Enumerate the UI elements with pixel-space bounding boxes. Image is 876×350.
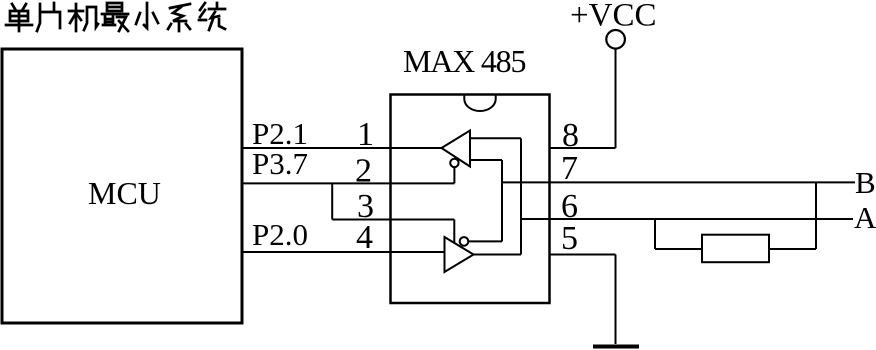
- wire pin2 P3.7 to /RE: [242, 182, 454, 184]
- pin 4 number: [356, 219, 373, 256]
- wire GND drop: [615, 255, 617, 345]
- svg-text:+VCC: +VCC: [570, 0, 656, 34]
- title 单片机最小系统: [6, 3, 225, 31]
- label A: [854, 200, 876, 235]
- wire jog pin2-pin3: [331, 183, 333, 219]
- pin 5 number: [561, 220, 578, 257]
- ground: [593, 345, 639, 349]
- wire pin3 DE: [332, 219, 454, 221]
- svg-text:7: 7: [561, 150, 578, 187]
- pin 3 number: [357, 188, 374, 225]
- wire pin5 GND: [550, 254, 616, 256]
- 小: [136, 3, 158, 28]
- label +VCC: [570, 0, 656, 34]
- 单: [6, 4, 32, 31]
- wire resistor right lead: [769, 248, 816, 250]
- wire DE drop to driver: [453, 220, 455, 243]
- wire net B vertical: [501, 160, 503, 241]
- driver triangle U1B: [445, 237, 474, 272]
- svg-text:2: 2: [355, 153, 372, 190]
- wire receiver enable bubble drop: [453, 167, 455, 183]
- wire driver inverted output: [468, 240, 502, 242]
- wire pin8 VCC: [550, 147, 616, 149]
- svg-text:1: 1: [357, 116, 374, 153]
- wire B stub to resistor: [815, 182, 817, 249]
- chip notch: [464, 95, 495, 111]
- svg-text:8: 8: [562, 117, 579, 154]
- svg-text:MCU: MCU: [88, 175, 161, 211]
- svg-text:MAX 485: MAX 485: [403, 43, 525, 79]
- wire pin1 P2.1 to RO: [242, 147, 442, 149]
- pin 6 number: [561, 188, 578, 225]
- svg-text:A: A: [854, 200, 876, 235]
- receiver op-amp triangle U1A: [442, 131, 471, 167]
- wire receiver input A stub: [470, 137, 521, 139]
- wire pin6 net A: [521, 218, 853, 220]
- wire resistor left lead: [655, 248, 702, 250]
- wire pin7 net B: [502, 181, 855, 183]
- 最: [102, 3, 128, 31]
- MAX 485 label: [403, 43, 525, 79]
- svg-text:4: 4: [356, 219, 373, 256]
- label P2.0: [252, 217, 308, 252]
- svg-text:B: B: [855, 165, 876, 200]
- wire net A vertical: [520, 138, 522, 254]
- MAX 485 chip body U1: [391, 95, 550, 304]
- wire VCC riser: [615, 49, 617, 149]
- 片: [37, 3, 60, 31]
- label P3.7: [252, 146, 308, 181]
- receiver enable bubble: [450, 159, 458, 167]
- label P2.1: [252, 116, 308, 151]
- pin 7 number: [561, 150, 578, 187]
- wire pin4 P2.0 to DI: [242, 251, 445, 253]
- wire driver output apex: [474, 254, 522, 256]
- pin 2 number: [355, 153, 372, 190]
- pin 1 number: [357, 116, 374, 153]
- svg-text:5: 5: [561, 220, 578, 257]
- wire receiver input B stub: [470, 159, 502, 161]
- VCC terminal circle: [606, 30, 625, 49]
- label B: [855, 165, 876, 200]
- MCU box: [2, 49, 242, 323]
- driver output bubble: [460, 237, 469, 246]
- svg-text:P2.0: P2.0: [252, 217, 308, 252]
- svg-text:P3.7: P3.7: [252, 146, 308, 181]
- 系: [168, 4, 190, 31]
- 统: [199, 3, 225, 30]
- MCU label: [88, 175, 161, 211]
- wire A stub to resistor: [654, 219, 656, 249]
- 机: [69, 4, 98, 31]
- pin 8 number: [562, 117, 579, 154]
- resistor R termination: [702, 235, 769, 263]
